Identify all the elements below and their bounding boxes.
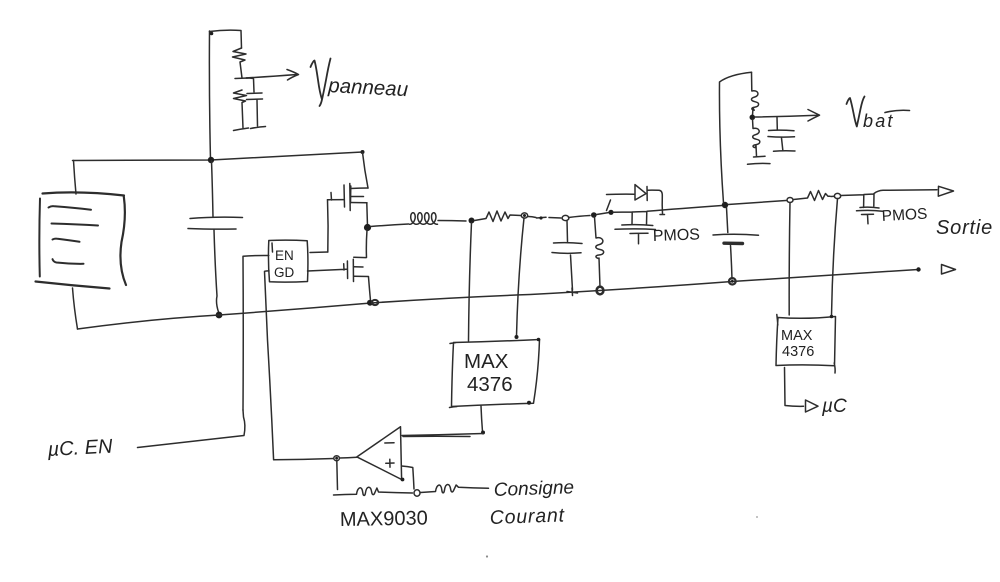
node: output cap tap — [549, 217, 561, 220]
svg-text:EN: EN — [275, 248, 294, 263]
wire: tap B down to U4 — [832, 199, 838, 316]
wire: Vbat arrow — [755, 110, 820, 122]
diode D1 — [607, 193, 635, 195]
op-amp U3 plus input — [386, 459, 394, 467]
resistor R6 — [334, 487, 413, 495]
transistor Q2 channel — [352, 259, 354, 281]
transistor Q1 drain stub — [351, 187, 369, 190]
terminal: Sortie minus arrow — [942, 265, 956, 275]
svg-text:MAX: MAX — [781, 328, 813, 344]
label MAX9030 — [340, 507, 428, 531]
wire: rail dash — [528, 217, 546, 219]
node: shunt2 tap B — [834, 193, 840, 198]
wire: GD gate line with tick — [308, 264, 347, 271]
wire: battery node up to Vbat divider — [719, 72, 751, 203]
transistor Q1 source stub — [351, 202, 368, 204]
wire: sense tap A down to U2 — [469, 223, 472, 342]
capacitor C3 output filter — [566, 221, 569, 242]
junction: switch node — [364, 224, 371, 231]
transistor Q2 low-side NMOS gate bar — [346, 261, 348, 279]
op-amp U3 minus input — [385, 442, 394, 444]
label GD — [274, 265, 295, 280]
ground: R4 — [748, 156, 771, 164]
resistor Rs1 current shunt — [475, 211, 522, 222]
wire: tap A down to U4 — [788, 203, 791, 316]
label uC — [821, 396, 847, 417]
wire: top rail — [73, 152, 363, 161]
label Vbat — [847, 97, 865, 127]
wire: U4 output to uC — [785, 368, 804, 407]
wire: arrow to Vpanneau — [246, 70, 299, 81]
junction: input cap bottom rail — [216, 312, 223, 319]
diode D1 slash tap — [607, 200, 611, 211]
svg-text:MAX9030: MAX9030 — [340, 507, 428, 531]
wire: feedback down from output node — [336, 461, 339, 490]
wire: rail junction to shunt2 — [728, 201, 786, 205]
junction: Q2 source bottom rail — [367, 300, 373, 306]
wire: mid rail to diode tap — [597, 213, 610, 215]
svg-text:PMOS: PMOS — [653, 226, 701, 245]
node: Vbat divider mid — [750, 115, 756, 121]
transistor Q4 gate bar — [857, 209, 883, 212]
op-amp U3 MAX9030 — [357, 427, 402, 480]
node: Vpanneau divider mid — [235, 77, 248, 80]
ground: C4 — [774, 150, 796, 153]
resistor R3 Vbat divider top — [751, 72, 758, 115]
junction: L1 sense tap A — [469, 218, 475, 224]
node: non-inverting junction — [414, 490, 420, 496]
node: load tap — [569, 216, 591, 218]
svg-text:bat: bat — [863, 111, 895, 131]
svg-text:Courant: Courant — [489, 504, 565, 529]
svg-text:4376: 4376 — [782, 344, 814, 360]
label EN — [275, 248, 294, 263]
node: top rail right end — [361, 150, 365, 154]
wire: panel top lead — [74, 161, 77, 195]
wire: top stub to Vpanneau divider — [210, 30, 242, 48]
label uC EN — [46, 436, 113, 461]
current sense amp U2 MAX4376 box — [450, 340, 540, 408]
node: shunt2 tap A — [787, 198, 793, 203]
label PMOS Q3 — [653, 226, 701, 245]
wire: sense tap B down to U2 — [517, 218, 525, 336]
transistor Q1 mid stub — [351, 196, 364, 198]
resistor Rs2 battery shunt — [794, 191, 831, 201]
wire: bottom ground rail — [78, 270, 919, 330]
svg-text:Sortie: Sortie — [936, 217, 993, 239]
transistor Q2 drain stub — [354, 256, 366, 258]
resistor R1 Vpanneau divider top — [233, 48, 247, 78]
transistor Q3 channel bar — [622, 224, 653, 227]
current sense amp U4 MAX4376 box — [776, 315, 836, 374]
svg-text:µC. EN: µC. EN — [46, 436, 113, 461]
junction: top rail input cap — [208, 157, 214, 163]
ground: C1 — [251, 127, 266, 129]
node: bottom rail right end — [916, 267, 920, 271]
transistor Q4 PMOS2 leads — [841, 190, 938, 208]
junction: battery bottom rail — [729, 278, 736, 284]
resistor R7 — [421, 484, 489, 492]
transistor Q3 gate bar — [615, 228, 656, 231]
wire: panel bottom lead — [73, 288, 78, 329]
transistor Q4 channel bar — [860, 206, 879, 209]
svg-text:µC: µC — [821, 396, 847, 417]
wire: U2 output — [481, 406, 483, 432]
node: op-amp output — [334, 456, 340, 461]
node: R5 bottom rail — [597, 287, 604, 295]
transistor Q2 source stub — [354, 275, 369, 277]
capacitor C4 Vbat filter — [776, 117, 778, 130]
label MAX 4376 — [464, 350, 513, 396]
gate driver U1 box — [268, 240, 308, 282]
junction: battery node — [722, 202, 728, 208]
label MAX 4376 small — [781, 328, 814, 360]
solar panel PV1 — [43, 192, 125, 195]
wire: uC EN to EN input — [138, 410, 245, 448]
wire: Q1 drain to top rail — [363, 153, 369, 189]
resistor R2 Vpanneau divider bottom — [234, 90, 247, 128]
svg-text:4376: 4376 — [467, 373, 513, 396]
svg-text:GD: GD — [274, 265, 295, 280]
terminal: uC arrow — [806, 400, 819, 412]
ground: R2 — [234, 128, 249, 131]
wire: EN vertical — [243, 255, 269, 410]
wire: Q2 source to bottom rail — [369, 277, 371, 301]
label Vpanneau — [311, 59, 331, 107]
wire: EN gate line with tick — [328, 193, 345, 201]
transistor Q4 gate T lead — [862, 214, 874, 224]
wire: input rail top vertical — [209, 31, 210, 160]
transistor Q3 PMOS1 leads — [613, 206, 722, 225]
svg-text:MAX: MAX — [464, 350, 509, 373]
svg-text:Consigne: Consigne — [493, 477, 574, 501]
battery BT1 — [727, 208, 728, 233]
svg-text:PMOS: PMOS — [881, 206, 927, 225]
transistor Q1 channel — [350, 184, 351, 211]
transistor Q2 mid stub — [354, 266, 363, 268]
wire: output node to GD input — [265, 271, 334, 460]
capacitor C1 Vpanneau filter — [247, 78, 255, 92]
wire: switch node down to Q2 — [365, 230, 368, 258]
node: sense tap B — [521, 213, 527, 218]
resistor R4 Vbat divider bottom — [753, 119, 760, 156]
wire: Q1 source to switch node — [366, 203, 369, 226]
resistor R5 vertical squiggle — [595, 217, 604, 287]
wire: op-amp output — [340, 456, 357, 459]
label Consigne Courant — [489, 477, 574, 529]
label Sortie — [936, 217, 993, 239]
svg-text:panneau: panneau — [327, 74, 409, 101]
transistor Q1 high-side NMOS gate bar — [343, 185, 346, 207]
terminal: Sortie plus arrow — [938, 186, 953, 196]
inductor L1 — [371, 224, 409, 227]
label PMOS Q4 — [881, 206, 927, 225]
capacitor C2 input bulk — [212, 161, 214, 218]
wire: non-inverting input lead — [402, 466, 414, 489]
transistor Q3 gate T lead — [630, 233, 648, 244]
